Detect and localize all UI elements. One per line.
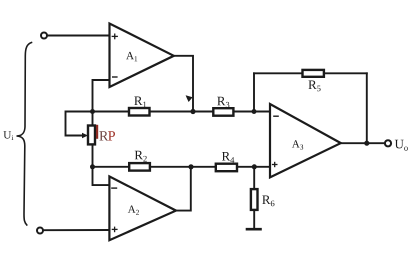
label RP xyxy=(99,131,108,140)
label Uo xyxy=(395,140,408,151)
wire R6 node down xyxy=(253,167,255,189)
junction node B xyxy=(90,164,95,169)
label A3 xyxy=(292,140,303,149)
wire R4 to A3 xyxy=(237,166,270,168)
resistor R4 xyxy=(216,164,237,172)
label R1 xyxy=(134,97,146,108)
arrowhead of RP wiper xyxy=(82,133,88,138)
wire node B down to A2 inverting input xyxy=(93,167,110,185)
label R2 xyxy=(135,151,147,162)
junction node A3- xyxy=(252,109,257,114)
wire feedback top left xyxy=(254,72,303,74)
wire R6 to ground xyxy=(253,210,255,228)
wire RP to node B xyxy=(92,144,94,166)
wire A3 output xyxy=(341,142,385,144)
Ui brace xyxy=(17,43,32,226)
ground xyxy=(247,228,261,231)
label R3 xyxy=(217,97,229,108)
wire A1 inverting input xyxy=(93,80,110,112)
resistor R2 xyxy=(129,163,150,171)
wire feedback down to output xyxy=(366,73,368,143)
wire bottom input to A2 + xyxy=(43,229,109,231)
wire A3 feedback up xyxy=(253,73,255,111)
resistor R3 xyxy=(213,108,233,116)
A3 plus sign xyxy=(272,162,278,167)
op-amp A3 xyxy=(270,104,341,177)
junction node A2 out xyxy=(188,164,193,169)
A2 minus sign xyxy=(111,187,117,189)
input terminal bottom xyxy=(37,228,43,234)
junction node R6 xyxy=(252,164,257,169)
A2 plus sign xyxy=(112,227,118,233)
wire A2 output xyxy=(176,167,191,211)
wire A1 output xyxy=(174,56,193,112)
wire R1 line xyxy=(93,111,130,113)
wire feedback top right xyxy=(324,72,367,74)
label Ui xyxy=(3,131,13,140)
potentiometer RP xyxy=(88,126,95,145)
output terminal xyxy=(385,140,391,146)
A1 minus sign xyxy=(112,76,118,78)
junction node A1- xyxy=(90,109,95,114)
wire R1 to node xyxy=(150,111,214,113)
wire node A to RP xyxy=(92,112,94,126)
red mark at RP xyxy=(96,125,98,139)
junction node output xyxy=(364,141,369,146)
label A1 xyxy=(126,52,137,61)
label A2 xyxy=(128,206,139,215)
wire R2 to node xyxy=(150,166,216,168)
resistor R1 xyxy=(129,108,150,116)
op-amp A2 xyxy=(109,176,176,240)
junction node A1 out xyxy=(190,109,195,114)
label R5 xyxy=(308,81,320,92)
current arrow on A1 output wire xyxy=(186,95,193,102)
label R4 xyxy=(222,152,234,163)
A1 plus sign xyxy=(112,34,118,40)
op-amp A1 xyxy=(110,24,174,88)
label R6 xyxy=(262,196,274,207)
input terminal top xyxy=(41,33,47,39)
resistor R6 xyxy=(251,189,258,210)
A3 minus sign xyxy=(273,115,279,117)
resistor R5 xyxy=(303,70,324,77)
wire R3 to A3 xyxy=(233,111,270,113)
wire R2 line xyxy=(93,166,130,168)
wire RP wiper loop xyxy=(66,112,93,136)
wire top input to A1 + xyxy=(47,35,109,37)
